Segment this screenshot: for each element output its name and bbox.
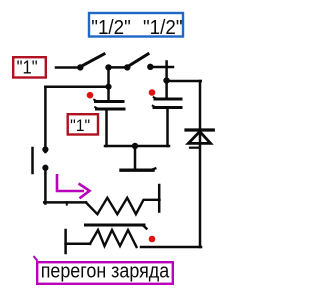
svg-text:"1": "1": [70, 116, 90, 135]
svg-text:"1/2": "1/2": [91, 17, 131, 39]
svg-text:"1": "1": [17, 58, 38, 78]
svg-text:"1/2": "1/2": [143, 17, 183, 39]
svg-text:перегон заряда: перегон заряда: [41, 260, 170, 283]
